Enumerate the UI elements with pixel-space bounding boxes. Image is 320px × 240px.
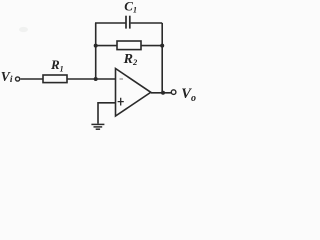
node A junction dot (inverting input node)	[94, 77, 98, 81]
wire C1 left lead	[95, 22, 126, 24]
wire R1 to op-amp inverting input	[67, 78, 116, 80]
node Vi terminal	[16, 77, 20, 81]
wire R2 left lead	[96, 45, 117, 47]
op-amp non-inverting input plus sign	[118, 98, 124, 106]
wire op-amp output	[151, 92, 171, 94]
wire right feedback rail	[161, 23, 163, 93]
wire R2 right lead	[141, 45, 162, 47]
wire C1 right lead	[131, 22, 163, 24]
resistor R1	[43, 75, 67, 83]
node junction dot left of R2	[94, 44, 98, 48]
node junction dot right of R2	[160, 44, 164, 48]
node output junction dot	[161, 91, 165, 95]
op-amp inverting input minus sign	[120, 78, 124, 80]
resistor R2	[117, 41, 141, 50]
faint scan smudge	[19, 27, 28, 32]
wire non-inverting input to ground	[98, 103, 116, 124]
node Vo terminal	[171, 90, 176, 95]
ground	[91, 124, 104, 129]
wire left feedback rail	[95, 23, 97, 79]
wire Vi to R1	[20, 78, 43, 80]
capacitor C1 plates	[125, 16, 127, 29]
op-amp U1 triangle	[116, 69, 151, 117]
